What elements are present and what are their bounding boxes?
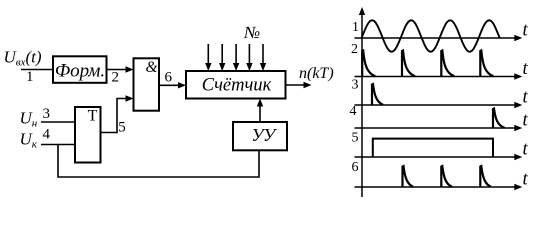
svg-text:t: t (523, 21, 529, 41)
waveform 2 pulse 4 (480, 51, 493, 77)
svg-text:Счётчик: Счётчик (202, 76, 272, 96)
svg-text:4: 4 (350, 104, 357, 119)
svg-text:УУ: УУ (251, 125, 277, 145)
waveform 3 start pulse (372, 84, 383, 105)
svg-text:Uвх(t): Uвх(t) (4, 48, 42, 69)
axis row 6 (355, 186, 519, 188)
svg-text:t: t (523, 170, 529, 190)
svg-text:1: 1 (352, 20, 359, 35)
svg-text:6: 6 (165, 70, 173, 86)
svg-text:2: 2 (112, 70, 120, 86)
time axis vertical (shared ordinate) (361, 11, 363, 197)
wire 1 input line (21, 69, 53, 71)
waveform 2 pulse 2 (402, 51, 415, 77)
wire 5 from T to AND gate (101, 99, 126, 133)
axis row 3 (355, 104, 519, 106)
waveform 5 gate pulse (373, 139, 493, 157)
axis row 4 (355, 127, 519, 129)
wire УУ to counter (259, 104, 261, 123)
svg-text:Форм.: Форм. (55, 61, 105, 82)
svg-text:3: 3 (352, 78, 359, 93)
wire 3 (41, 121, 75, 123)
waveform 6 pulse 1 (403, 166, 414, 187)
code input arrow 1 (207, 44, 209, 64)
axis row 5 (355, 156, 519, 158)
waveform 4 stop pulse (493, 109, 505, 129)
svg-text:&: & (145, 59, 157, 76)
waveform 2 pulse 1 (362, 51, 375, 77)
svg-text:t: t (523, 140, 529, 160)
code input arrow 5 (262, 44, 264, 64)
svg-text:№: № (243, 23, 260, 42)
svg-text:4: 4 (43, 127, 51, 143)
svg-text:5: 5 (352, 131, 359, 146)
code input arrow 2 (221, 44, 223, 64)
wire n(kT) counter output (286, 84, 307, 86)
svg-text:2: 2 (351, 42, 358, 57)
block T flip-flop (75, 107, 101, 163)
axis row 2 (355, 76, 519, 78)
block Счётчик counter (186, 71, 286, 99)
waveform 2 pulse 3 (441, 51, 454, 77)
svg-text:t: t (523, 88, 529, 108)
svg-text:Т: Т (88, 108, 98, 125)
svg-text:Uк: Uк (20, 130, 38, 151)
wire 6 from AND to counter (160, 84, 182, 86)
waveform 6 pulse 2 (441, 166, 452, 187)
svg-text:3: 3 (43, 106, 51, 122)
AND gate & (134, 58, 160, 110)
svg-text:1: 1 (26, 69, 34, 85)
svg-text:5: 5 (118, 120, 126, 136)
wire 2 from shaper to AND gate (107, 69, 129, 71)
wire 4 (41, 144, 75, 146)
block УУ control unit (233, 122, 287, 150)
code input arrow 3 (235, 44, 237, 64)
waveform 6 pulse 3 (480, 166, 491, 187)
svg-text:n(kT): n(kT) (299, 65, 334, 82)
waveform 1 sine (362, 20, 500, 52)
axis row 1 (355, 37, 519, 39)
svg-text:t: t (523, 59, 529, 79)
svg-text:6: 6 (352, 160, 359, 175)
code input arrow 4 (248, 44, 250, 64)
svg-text:t: t (523, 111, 529, 131)
block Форм. (shaper U1) (53, 56, 107, 83)
feedback wire from line 4 to УУ (58, 145, 259, 178)
svg-text:Uн: Uн (20, 109, 38, 130)
